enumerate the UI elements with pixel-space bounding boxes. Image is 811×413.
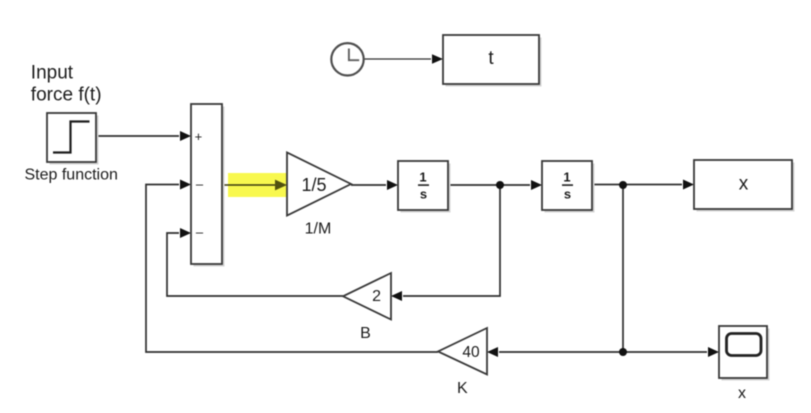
svg-text:K: K [457, 380, 468, 397]
svg-text:–: – [196, 225, 204, 240]
svg-text:2: 2 [372, 288, 381, 305]
svg-text:B: B [360, 325, 371, 342]
svg-text:1/M: 1/M [305, 221, 332, 238]
svg-text:force f(t): force f(t) [31, 84, 102, 105]
svg-text:+: + [195, 129, 203, 144]
svg-text:1: 1 [419, 169, 426, 184]
svg-text:s: s [420, 187, 427, 202]
svg-text:x: x [738, 385, 746, 402]
svg-text:40: 40 [462, 344, 480, 361]
svg-text:x: x [739, 173, 749, 194]
svg-text:1/5: 1/5 [301, 175, 326, 195]
svg-text:Step function: Step function [24, 167, 117, 184]
svg-text:–: – [196, 177, 204, 192]
svg-text:1: 1 [563, 169, 570, 184]
svg-text:Input: Input [31, 62, 74, 83]
svg-text:t: t [488, 48, 494, 69]
svg-text:s: s [564, 187, 571, 202]
